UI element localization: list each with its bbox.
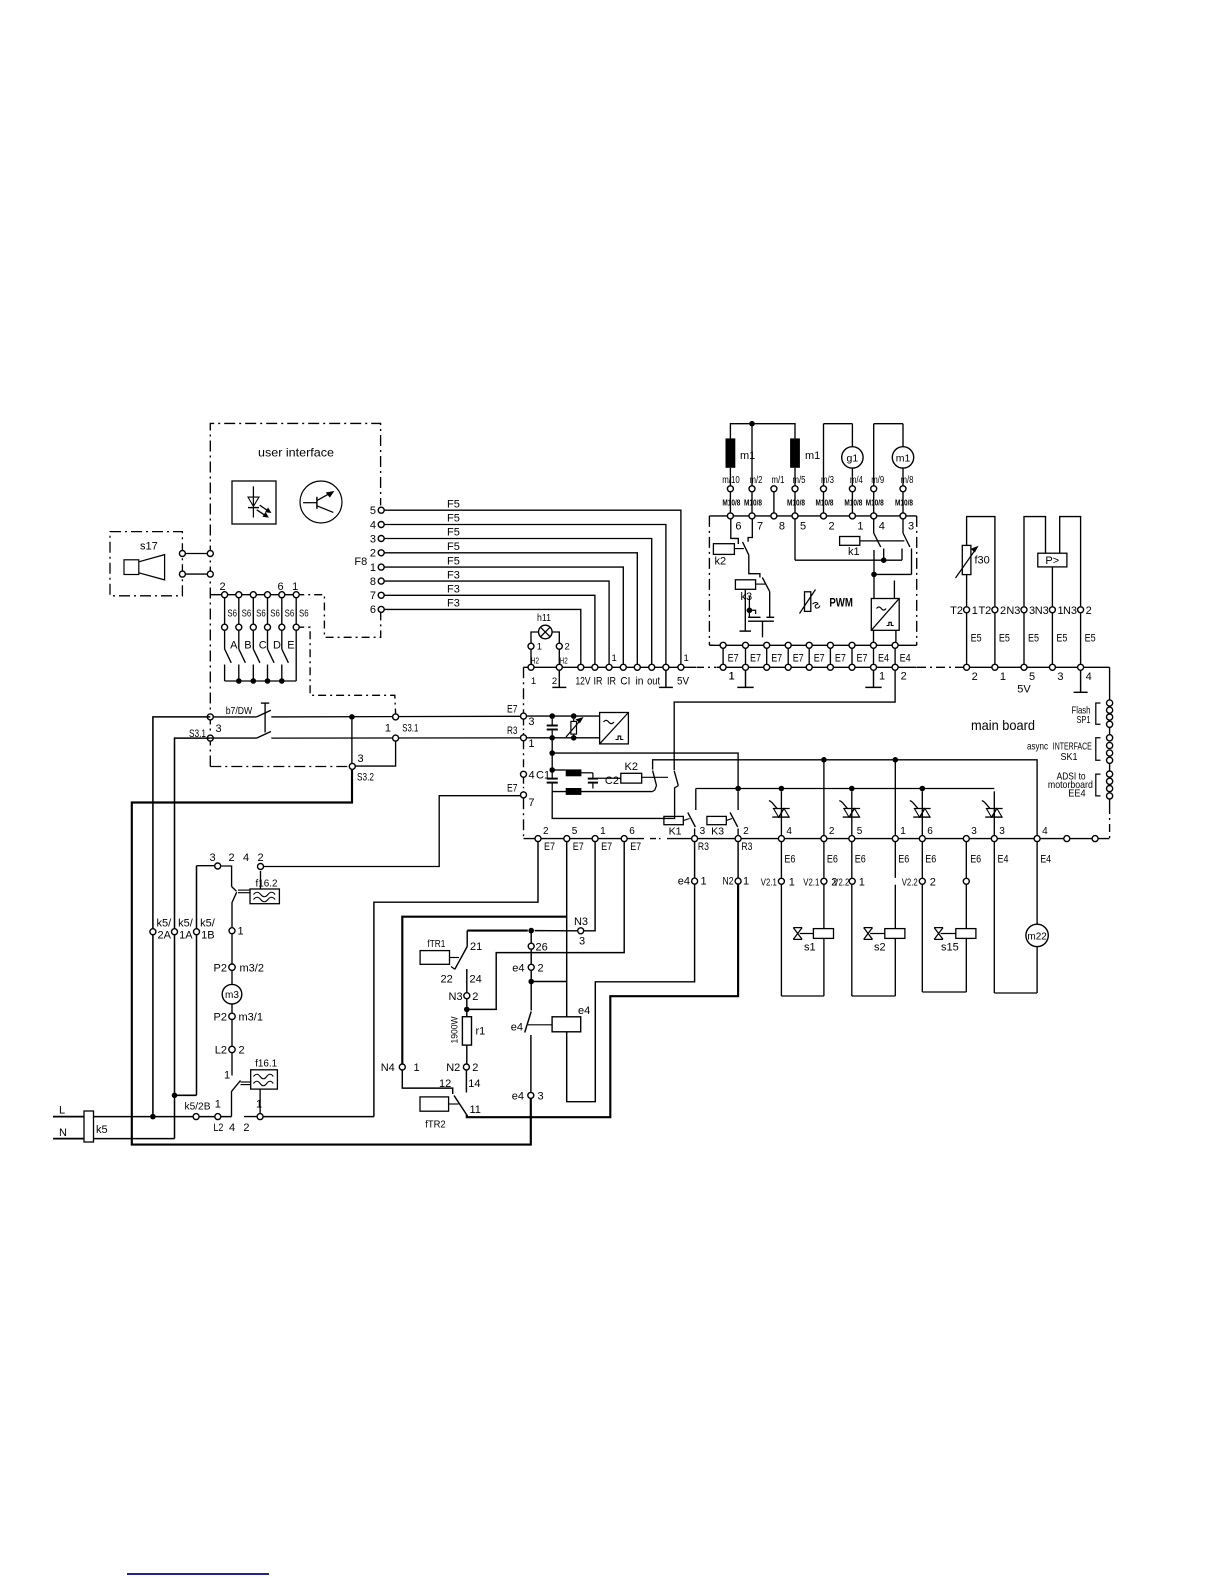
svg-text:SP1: SP1 — [1077, 714, 1091, 726]
svg-text:26: 26 — [536, 942, 548, 954]
bottom rail dash-dot gap — [650, 838, 661, 840]
svg-text:S6: S6 — [299, 608, 309, 620]
svg-text:k5/: k5/ — [200, 918, 216, 930]
motor board top pin 1 — [849, 513, 855, 519]
svg-text:E7: E7 — [835, 653, 846, 665]
svg-text:12V: 12V — [576, 676, 592, 688]
branch bus1 to pin 1 — [894, 760, 896, 839]
ground below out — [665, 671, 667, 688]
wire m/10 group — [730, 424, 795, 439]
main board bottom pin E4 4 — [1034, 836, 1040, 842]
wire junction to S3.2 — [351, 720, 353, 763]
svg-text:6: 6 — [629, 826, 635, 837]
motor board top pin 5 — [792, 513, 798, 519]
transistor plates — [748, 616, 760, 618]
pin N3 1 — [1049, 607, 1055, 613]
pin S3.1 left row2 — [207, 735, 213, 741]
choke winding lower — [566, 788, 582, 795]
svg-text:3: 3 — [358, 753, 364, 765]
svg-text:m/2: m/2 — [750, 475, 763, 486]
svg-text:7: 7 — [757, 521, 763, 533]
connector S6 bottom pins — [222, 624, 228, 630]
svg-text:8: 8 — [779, 521, 785, 533]
k5 contact 1A column — [175, 738, 211, 1095]
svg-text:k5/: k5/ — [178, 918, 194, 930]
svg-text:2: 2 — [743, 826, 749, 837]
svg-text:s15: s15 — [941, 942, 959, 954]
pin S3.1 left row1 — [207, 714, 213, 720]
svg-text:E7: E7 — [857, 653, 868, 665]
svg-text:S6: S6 — [285, 608, 295, 620]
svg-text:e4: e4 — [678, 876, 690, 888]
svg-text:E4: E4 — [998, 853, 1009, 865]
svg-text:C: C — [259, 640, 267, 652]
svg-text:E7: E7 — [793, 653, 804, 665]
svg-text:T2: T2 — [950, 605, 963, 617]
meter symbol internals — [303, 502, 317, 504]
k2 blade — [743, 542, 749, 555]
svg-text:2: 2 — [901, 671, 907, 683]
buzzer symbol — [124, 560, 139, 575]
bottom rail spare pins — [1064, 836, 1070, 842]
main board bottom pin E7 2 — [535, 836, 541, 842]
wire R3 node down to gate bus — [551, 741, 553, 770]
relay coil K1 — [664, 816, 683, 824]
pin N4 1 — [399, 1064, 405, 1070]
svg-text:1: 1 — [972, 605, 978, 617]
capacitor C2 — [588, 778, 598, 780]
wire N row — [94, 1138, 175, 1140]
svg-text:3: 3 — [579, 936, 585, 948]
k2 coil link — [734, 548, 744, 550]
wire fTR1 feed — [467, 930, 528, 932]
pin f16.2 3 — [215, 863, 221, 869]
motor connector pin E7 — [808, 645, 810, 667]
svg-text:F3: F3 — [447, 569, 460, 581]
wire fTR2 11 to N2/1 route — [467, 885, 738, 1118]
wire F8 pin 1 to main board (F5) — [381, 567, 623, 667]
svg-text:R3: R3 — [698, 841, 709, 853]
svg-text:e4: e4 — [512, 1091, 524, 1103]
svg-text:R3: R3 — [507, 725, 518, 737]
pump m22 loop — [993, 842, 995, 993]
svg-text:T2: T2 — [978, 605, 991, 617]
svg-text:m/4: m/4 — [850, 475, 863, 486]
motor board right dash-dot edge — [916, 516, 918, 645]
svg-text:E7: E7 — [601, 841, 612, 853]
svg-text:E4: E4 — [900, 653, 911, 665]
NTC f30 loop — [966, 575, 968, 607]
k2 contact from pin 6 — [731, 519, 739, 544]
svg-text:4: 4 — [243, 852, 249, 864]
connector S6 top pins — [222, 592, 228, 598]
transistor source stem — [762, 621, 764, 637]
svg-text:E5: E5 — [971, 633, 982, 645]
svg-text:m/10: m/10 — [722, 475, 740, 486]
svg-text:1: 1 — [857, 521, 863, 533]
svg-text:S6: S6 — [242, 608, 252, 620]
svg-text:2: 2 — [972, 671, 978, 683]
svg-text:7: 7 — [528, 797, 534, 809]
pressure switch P> — [1038, 553, 1067, 567]
svg-text:N4: N4 — [381, 1062, 395, 1074]
svg-text:K1: K1 — [669, 825, 682, 837]
svg-text:A: A — [230, 640, 238, 652]
wire S3.2 route to e4/3 — [132, 770, 531, 1145]
main board bottom pin R3 2 — [735, 836, 741, 842]
pin S3.2 — [349, 763, 355, 769]
svg-text:b7/DW: b7/DW — [226, 705, 253, 717]
svg-text:m1: m1 — [896, 452, 911, 464]
svg-text:1: 1 — [743, 876, 749, 888]
e4 coil loop to e4/1 — [567, 885, 695, 1102]
svg-text:1: 1 — [612, 653, 617, 664]
right edge dash-dot to bottom corner — [1109, 806, 1111, 839]
pin m/8 — [900, 486, 906, 492]
main board bottom pin E6 2 — [821, 836, 827, 842]
s17 pin lower — [182, 573, 210, 575]
s17 pin upper — [182, 553, 210, 555]
thermostat fTR1 box — [420, 951, 449, 965]
svg-text:2: 2 — [552, 676, 557, 687]
f16.2 pin 2 wire to E7/7 — [260, 871, 262, 889]
branch bus1 to pin 2 — [823, 760, 825, 839]
pin m/4 — [849, 486, 855, 492]
inverter to E4 pins — [873, 630, 875, 642]
drain pump m3 — [231, 971, 233, 985]
lamp h11 — [539, 625, 553, 639]
junction node on row1 — [349, 714, 355, 720]
svg-text:k5: k5 — [96, 1124, 108, 1136]
wire S3.1 row1 to main board — [210, 716, 256, 718]
wire k2 blade to k3 blade — [749, 555, 760, 577]
bus wire lower (triac supply) — [696, 788, 995, 790]
svg-text:1: 1 — [537, 642, 542, 653]
svg-text:E6: E6 — [855, 853, 866, 865]
NTC f30 — [962, 545, 971, 574]
relay coil k2 motor board — [713, 544, 734, 555]
svg-text:m1: m1 — [740, 450, 755, 462]
k3 coil return to ground — [744, 589, 746, 631]
svg-text:E5: E5 — [1085, 633, 1096, 645]
capacitor across mains — [551, 719, 553, 726]
relay contact fTR1 — [466, 931, 468, 947]
opto LED box — [232, 481, 276, 524]
svg-text:E6: E6 — [784, 853, 795, 865]
svg-text:h11: h11 — [537, 613, 551, 624]
svg-text:12: 12 — [439, 1078, 451, 1090]
svg-text:4: 4 — [1086, 671, 1092, 683]
svg-text:M10/8: M10/8 — [866, 499, 884, 508]
svg-text:1A: 1A — [179, 930, 193, 942]
thermal fuse f16.2 box — [250, 889, 279, 904]
relay coil k3 motor board — [735, 580, 755, 590]
svg-text:2: 2 — [243, 1122, 249, 1134]
wire S3.1 right to S3.2 — [352, 742, 395, 767]
pin L2 1 — [215, 1114, 221, 1120]
pin m/5 — [792, 486, 798, 492]
svg-text:E7: E7 — [771, 653, 782, 665]
relay k5 box — [84, 1111, 94, 1142]
svg-text:4: 4 — [370, 519, 376, 531]
pump m22 — [1026, 924, 1048, 946]
svg-text:F8: F8 — [354, 556, 367, 568]
K2 contact 2 blade — [674, 771, 678, 786]
svg-text:async: async — [1027, 740, 1048, 752]
connector Flash SP1 — [1107, 700, 1113, 706]
valve s1 — [780, 842, 782, 878]
svg-text:F5: F5 — [447, 541, 460, 553]
triac V2.2-2 on E4 pin 3 — [993, 791, 995, 835]
svg-text:fTR2: fTR2 — [425, 1119, 446, 1131]
svg-text:s2: s2 — [874, 942, 886, 954]
triac V2.2-1 — [921, 791, 923, 835]
svg-text:E6: E6 — [925, 853, 936, 865]
svg-text:P2: P2 — [214, 963, 227, 975]
ground under E5 pin4 — [1080, 671, 1082, 693]
svg-text:1B: 1B — [201, 930, 214, 942]
svg-text:14: 14 — [468, 1078, 480, 1090]
wire e4 node to board pin 5 column — [531, 981, 567, 983]
main board bottom pin E4 3 — [991, 836, 997, 842]
svg-text:6: 6 — [370, 604, 376, 616]
svg-text:IR: IR — [594, 676, 603, 688]
S6 pass-through stubs — [224, 598, 226, 624]
svg-text:3: 3 — [1057, 671, 1063, 683]
svg-text:L: L — [59, 1105, 65, 1117]
main board left boundary dash-dot — [523, 667, 525, 712]
svg-text:E: E — [287, 640, 294, 652]
main board bottom pin E6 4 — [778, 836, 784, 842]
svg-text:main board: main board — [971, 717, 1035, 733]
svg-text:11: 11 — [470, 1104, 481, 1116]
main board bottom pin E6 3 — [963, 836, 969, 842]
relay coil e4 — [552, 1017, 581, 1032]
relay contact fTR2 — [454, 1096, 467, 1115]
mains terminal N — [53, 1138, 84, 1140]
pin m/2 — [749, 486, 755, 492]
wire F8 pin 5 to main board (F5) — [381, 510, 681, 667]
svg-text:3: 3 — [971, 826, 977, 837]
motor board top pin 4 — [871, 513, 877, 519]
svg-text:2: 2 — [257, 852, 263, 864]
svg-text:SK1: SK1 — [1061, 751, 1078, 763]
pin P2 m3/1 — [229, 1013, 235, 1019]
svg-text:M10/8: M10/8 — [895, 499, 913, 508]
svg-text:1: 1 — [224, 1070, 230, 1082]
wire pin5 to relay node — [794, 519, 796, 560]
motor board corner to rail — [709, 644, 716, 646]
svg-text:D: D — [273, 640, 281, 652]
motor board left dash-dot edge — [708, 516, 710, 645]
pin V2.1/2 — [821, 878, 827, 884]
pin L2 2 — [231, 1020, 233, 1046]
svg-text:2: 2 — [229, 852, 235, 864]
svg-text:m3/1: m3/1 — [239, 1012, 263, 1024]
lamp h11 left leg pin 1 — [531, 632, 539, 667]
svg-text:2: 2 — [370, 548, 376, 560]
main board bottom pin E6 6 — [919, 836, 925, 842]
user interface bottom dash-dot edge — [210, 766, 352, 768]
pin S3.1 right row1 — [393, 714, 399, 720]
svg-text:k5/: k5/ — [157, 918, 173, 930]
svg-text:E7: E7 — [507, 782, 518, 794]
ground below pin 2 — [558, 671, 560, 688]
svg-text:e4: e4 — [578, 1005, 590, 1017]
pin V2.1/1 — [778, 878, 784, 884]
wire E7/3 to filter — [527, 715, 600, 717]
svg-text:1: 1 — [385, 723, 391, 735]
svg-text:S6: S6 — [227, 608, 237, 620]
svg-text:1: 1 — [729, 671, 735, 683]
svg-text:1900W: 1900W — [450, 1016, 461, 1043]
svg-text:s1: s1 — [804, 942, 816, 954]
board pin 5 column — [566, 842, 568, 1017]
svg-text:5: 5 — [857, 826, 863, 837]
svg-text:1: 1 — [238, 926, 244, 938]
user interface boundary lobe around F8 — [296, 595, 381, 638]
svg-text:2: 2 — [565, 642, 570, 653]
relay coil k1 motor board — [840, 537, 860, 546]
motor connector pin E7 — [745, 645, 747, 667]
svg-text:P>: P> — [1045, 555, 1059, 567]
svg-text:R3: R3 — [741, 841, 752, 853]
wire C1 bottom — [552, 791, 652, 793]
pin N2/1 — [735, 878, 741, 884]
svg-text:2: 2 — [538, 963, 544, 975]
svg-text:f16.2: f16.2 — [256, 878, 278, 890]
svg-text:N2: N2 — [446, 1062, 460, 1074]
K2 coil link — [642, 776, 668, 778]
svg-text:F5: F5 — [447, 513, 460, 525]
svg-text:2: 2 — [829, 826, 835, 837]
wire N4 to fTR2 terminal 12 — [402, 1071, 452, 1095]
thermal fuse f16.1 box — [251, 1070, 278, 1089]
svg-text:3: 3 — [216, 723, 222, 735]
relay coil K2 — [621, 773, 642, 783]
svg-text:5: 5 — [370, 505, 376, 517]
svg-text:2: 2 — [1000, 605, 1006, 617]
svg-text:V2.2: V2.2 — [833, 877, 849, 889]
svg-text:E4: E4 — [1040, 853, 1051, 865]
svg-text:7: 7 — [370, 590, 376, 602]
pin P2 m3/2 — [229, 964, 235, 970]
svg-text:N3: N3 — [1063, 605, 1077, 617]
pin m/1 — [771, 486, 777, 492]
motor board top pin 3 — [900, 513, 906, 519]
wire R3/1 to filter — [527, 737, 600, 739]
choke winding upper — [566, 769, 582, 776]
svg-text:6: 6 — [927, 826, 933, 837]
wire to P2 — [231, 934, 233, 963]
svg-text:1: 1 — [414, 1062, 420, 1074]
svg-text:C2: C2 — [605, 775, 619, 787]
svg-text:S3.1: S3.1 — [402, 723, 418, 735]
main board right edge — [1109, 667, 1111, 700]
svg-text:e4: e4 — [512, 963, 524, 975]
svg-text:24: 24 — [470, 973, 482, 985]
inverter module box — [871, 599, 899, 631]
svg-text:M10/8: M10/8 — [744, 499, 762, 508]
pin N3 3 — [578, 928, 584, 934]
svg-text:L2: L2 — [215, 1045, 227, 1057]
svg-text:N3: N3 — [1035, 605, 1049, 617]
svg-text:1: 1 — [701, 876, 707, 888]
svg-text:M10/8: M10/8 — [844, 499, 862, 508]
svg-text:m22: m22 — [1027, 931, 1047, 942]
svg-text:K3: K3 — [711, 825, 724, 837]
wire heater junction to board pin 6 — [467, 842, 624, 1009]
svg-text:2: 2 — [930, 877, 936, 889]
pin V2.2/2 — [919, 878, 925, 884]
motor board top pin 6 — [727, 513, 733, 519]
valve s2 — [851, 842, 853, 878]
svg-text:m/1: m/1 — [772, 475, 785, 486]
svg-text:V2.1: V2.1 — [761, 877, 777, 889]
pin T2 2 — [992, 607, 998, 613]
wire F8 pin 4 to main board (F5) — [381, 525, 666, 668]
svg-text:1: 1 — [879, 671, 885, 683]
svg-text:m/9: m/9 — [871, 475, 884, 486]
svg-text:E7: E7 — [573, 841, 584, 853]
svg-text:F5: F5 — [447, 527, 460, 539]
inverter stub — [893, 581, 895, 599]
motor board bottom edge — [709, 644, 916, 646]
svg-text:M10/8: M10/8 — [816, 499, 834, 508]
svg-text:21: 21 — [470, 941, 482, 953]
svg-text:F3: F3 — [447, 598, 460, 610]
svg-text:E5: E5 — [1028, 633, 1039, 645]
rail dash-dot gap 2 — [917, 666, 962, 668]
svg-text:1: 1 — [370, 562, 376, 574]
pin S3.1 right row2 — [393, 735, 399, 741]
pin N3 2 heater — [464, 993, 470, 999]
svg-text:2: 2 — [1086, 605, 1092, 617]
svg-text:E5: E5 — [999, 633, 1010, 645]
ground below motor E4 pin1 — [873, 671, 875, 688]
motor connector pin E7 — [787, 645, 789, 667]
ground below motor E7 pin2 — [745, 671, 747, 688]
svg-text:2: 2 — [239, 1045, 245, 1057]
svg-text:4: 4 — [1042, 826, 1048, 837]
svg-text:E6: E6 — [827, 853, 838, 865]
main board bottom pin E6 1 — [892, 836, 898, 842]
k5 contact 1B column — [175, 1094, 197, 1096]
main board top rail — [524, 666, 697, 668]
svg-text:5: 5 — [572, 826, 578, 837]
svg-text:V2.1: V2.1 — [803, 877, 819, 889]
svg-text:E7: E7 — [544, 841, 555, 853]
PWM symbol — [805, 592, 811, 612]
svg-text:1: 1 — [528, 738, 534, 750]
svg-text:F5: F5 — [447, 498, 460, 510]
svg-text:r1: r1 — [476, 1026, 486, 1038]
mains terminal L — [53, 1116, 84, 1118]
wire C2 to K2 coil — [598, 777, 621, 779]
motor g1 circle — [824, 423, 853, 425]
wire F8 pin 2 to main board (F5) — [381, 553, 637, 668]
footer link line — [127, 1573, 269, 1575]
svg-text:m/3: m/3 — [821, 475, 834, 486]
S6 common bus — [225, 680, 297, 682]
wire f16.1 to board pin2 route — [264, 1116, 374, 1118]
wire K2 contact2 to E4 pin 2 — [674, 671, 895, 771]
svg-text:6: 6 — [277, 581, 283, 593]
svg-text:m1: m1 — [805, 450, 820, 462]
svg-text:F3: F3 — [447, 584, 460, 596]
wire N3/3 to board pin 1 — [584, 842, 595, 931]
svg-text:N3: N3 — [449, 991, 463, 1003]
